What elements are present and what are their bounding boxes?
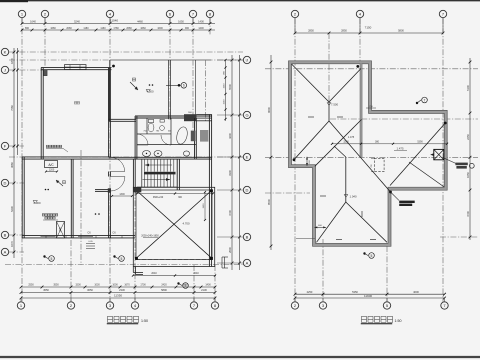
stair up arrow xyxy=(145,164,172,166)
sheet bottom border xyxy=(0,356,480,358)
svg-text:1400: 1400 xyxy=(198,27,204,30)
corner column xyxy=(44,70,48,76)
svg-text:K: K xyxy=(4,50,7,55)
svg-text:5500: 5500 xyxy=(228,84,232,90)
svg-text:1500: 1500 xyxy=(75,284,81,287)
interior vertical dim x222 small walls xyxy=(221,257,223,268)
svg-text:2850: 2850 xyxy=(341,29,347,33)
svg-text:2250: 2250 xyxy=(466,134,470,140)
lower hip left xyxy=(317,202,346,242)
svg-text:5890: 5890 xyxy=(161,288,167,292)
svg-text:2050+240+1850: 2050+240+1850 xyxy=(141,235,159,238)
terrace diagonal brace A xyxy=(137,191,212,259)
door arc corridor 1 xyxy=(110,157,124,171)
svg-text:1:50: 1:50 xyxy=(141,319,148,323)
level 6.300 label2 xyxy=(63,181,66,184)
leader circles bottom row xyxy=(43,255,45,257)
svg-text:5350: 5350 xyxy=(352,290,358,294)
A/C niche top xyxy=(45,161,58,168)
svg-text:1650: 1650 xyxy=(466,172,470,178)
svg-text:1400: 1400 xyxy=(198,20,204,24)
bath door arc xyxy=(137,134,148,145)
shower dark unit xyxy=(191,131,196,142)
balcony divider wall xyxy=(168,60,170,119)
hip line TL xyxy=(292,64,330,102)
note text 2 xyxy=(42,214,44,216)
svg-text:3650: 3650 xyxy=(87,288,93,292)
svg-text:1.475: 1.475 xyxy=(397,147,404,151)
svg-text:5: 5 xyxy=(51,257,53,261)
interior dim line right wing xyxy=(332,143,447,145)
landing wall y158 xyxy=(109,156,212,158)
right plan bottom circles xyxy=(291,302,298,309)
svg-text:1780: 1780 xyxy=(113,27,119,30)
svg-text:4600: 4600 xyxy=(413,290,419,294)
svg-text:1670: 1670 xyxy=(124,284,130,287)
right plan top dimension line xyxy=(295,32,443,34)
left axis circles xyxy=(1,48,8,55)
svg-text:860: 860 xyxy=(25,27,30,30)
note text left xyxy=(46,145,48,147)
svg-text:1650: 1650 xyxy=(224,83,226,89)
svg-text:9600: 9600 xyxy=(267,107,271,113)
right wing hip to corner D xyxy=(409,162,444,187)
stair edge bottom xyxy=(137,186,177,188)
svg-text:2040: 2040 xyxy=(151,272,157,275)
svg-text:1160: 1160 xyxy=(100,27,106,30)
leader lower wing xyxy=(363,252,365,254)
door arc corridor 2 xyxy=(110,177,125,192)
left exterior wall upper xyxy=(40,68,42,160)
lower wing ridge xyxy=(345,157,347,202)
far right exterior wall xyxy=(208,114,210,266)
svg-text:C6: C6 xyxy=(112,231,116,235)
svg-text:5240: 5240 xyxy=(74,20,80,24)
exterior step bottom-left of terrace xyxy=(132,267,134,273)
svg-text:4550: 4550 xyxy=(43,288,49,292)
svg-text:1650: 1650 xyxy=(178,20,184,24)
svg-text:380: 380 xyxy=(375,141,380,144)
interior dim small near step xyxy=(366,107,376,109)
stair right wall xyxy=(176,159,178,190)
svg-text:D: D xyxy=(246,188,249,193)
title left: san ceng ping mian tu xyxy=(108,316,113,322)
svg-text:7: 7 xyxy=(424,98,426,102)
valley B xyxy=(315,120,362,167)
skylight dashed rect xyxy=(374,158,384,171)
svg-text:2040: 2040 xyxy=(193,272,199,275)
svg-text:1560: 1560 xyxy=(224,99,226,105)
bottom axis circles left plan xyxy=(17,302,24,309)
svg-text:J: J xyxy=(246,58,248,63)
svg-text:6: 6 xyxy=(183,84,185,88)
svg-text:2600: 2600 xyxy=(228,247,232,253)
svg-text:4700: 4700 xyxy=(466,211,470,217)
svg-text:3600+240: 3600+240 xyxy=(153,197,164,199)
svg-text:A: A xyxy=(246,261,249,266)
svg-text:1600: 1600 xyxy=(157,27,163,30)
svg-text:3300: 3300 xyxy=(228,170,232,176)
long valley A xyxy=(329,121,391,192)
wash basin 1 xyxy=(143,151,151,157)
svg-text:1300: 1300 xyxy=(119,193,125,196)
axis grid: vertical centerlines left plan xyxy=(21,18,23,301)
svg-text:C6: C6 xyxy=(87,231,91,235)
sheet top border xyxy=(0,0,480,2)
toilet 1 xyxy=(148,123,154,132)
leader on top parapet xyxy=(416,102,418,104)
toilet 2 xyxy=(160,126,165,131)
stair handrail dark band xyxy=(144,172,176,175)
bottom exterior wall xyxy=(22,235,135,237)
svg-text:2420: 2420 xyxy=(161,284,167,287)
terrace diagonal brace B xyxy=(137,191,212,259)
left dimension column xyxy=(13,48,15,258)
svg-text:3550: 3550 xyxy=(53,284,59,287)
interior wall x72 xyxy=(70,159,72,238)
extension line bottom left xyxy=(296,238,315,240)
connector wall corridor-terrace xyxy=(132,159,134,187)
terrace square inner wall xyxy=(136,190,212,260)
right axis circles of left plan xyxy=(243,56,250,63)
bidet xyxy=(184,151,190,156)
room divider wall y190 xyxy=(95,189,110,191)
svg-text:2330: 2330 xyxy=(119,288,125,292)
inner gray wall line x361 xyxy=(360,64,362,157)
svg-text:2850: 2850 xyxy=(308,29,314,33)
step mini dimension vertical xyxy=(306,157,308,166)
right plan bottom dims xyxy=(295,293,445,295)
svg-text:2550: 2550 xyxy=(28,284,34,287)
top axis circles 1 2 4 6 7 8 xyxy=(18,10,25,17)
svg-text:J: J xyxy=(4,68,6,73)
terrace corner pads xyxy=(135,189,138,192)
svg-text:1660: 1660 xyxy=(140,27,146,30)
corridor wall x109 with door openings xyxy=(108,121,110,157)
svg-text:E: E xyxy=(246,155,249,160)
leader top right to circle 6 xyxy=(166,84,181,86)
axis grid: horizontal centerlines left plan xyxy=(9,51,243,53)
svg-text:900: 900 xyxy=(185,27,190,30)
step wall at y156 xyxy=(22,156,46,158)
svg-text:4700: 4700 xyxy=(228,210,232,216)
corner dot top right xyxy=(356,65,359,68)
svg-text:1030: 1030 xyxy=(94,284,100,287)
right heavy wall chunk xyxy=(184,114,197,121)
svg-text:7150: 7150 xyxy=(365,26,372,30)
stair treads xyxy=(141,159,143,187)
right plan top circles xyxy=(291,10,298,17)
note dark text mid-right xyxy=(399,201,415,203)
svg-text:7560: 7560 xyxy=(10,105,14,111)
bath block outline xyxy=(135,115,212,117)
wash basin 2 xyxy=(154,151,162,157)
svg-text:B: B xyxy=(246,235,249,240)
terrace square outer wall xyxy=(133,187,214,266)
interior vertical dim x205 xyxy=(204,192,206,220)
svg-text:1.475: 1.475 xyxy=(348,136,355,139)
svg-text:2130: 2130 xyxy=(201,288,207,292)
svg-text:1870: 1870 xyxy=(10,58,14,64)
svg-text:1400: 1400 xyxy=(205,284,211,287)
svg-text:G: G xyxy=(245,113,248,118)
svg-text:5: 5 xyxy=(185,284,187,288)
svg-text:5390: 5390 xyxy=(417,141,423,144)
right plan right dim column xyxy=(469,58,471,240)
svg-text:1680: 1680 xyxy=(50,27,56,30)
svg-text:D: D xyxy=(4,181,7,186)
svg-text:1.040: 1.040 xyxy=(350,195,357,199)
top exterior wall with bay window xyxy=(41,67,112,69)
svg-text:5800: 5800 xyxy=(398,29,404,33)
down-arrow symbol big room right xyxy=(130,82,138,90)
right plan axis centerlines xyxy=(265,68,478,70)
svg-text:5: 5 xyxy=(371,254,373,258)
right wing diagonal C xyxy=(390,123,445,186)
svg-text:4460: 4460 xyxy=(137,20,143,24)
svg-text:1200: 1200 xyxy=(49,168,55,171)
svg-text:11900: 11900 xyxy=(364,294,372,298)
inner dim chain x225 xyxy=(225,60,227,121)
svg-text:4.700: 4.700 xyxy=(183,222,190,226)
svg-text:A/C: A/C xyxy=(48,163,54,167)
dim line inside square top xyxy=(137,193,213,195)
svg-text:1640: 1640 xyxy=(30,20,36,24)
svg-text:1000: 1000 xyxy=(112,284,118,287)
svg-text:7.500: 7.500 xyxy=(331,103,338,107)
right plan left dim column xyxy=(270,55,272,250)
closet dark unit xyxy=(200,130,208,142)
svg-text:8500: 8500 xyxy=(267,199,271,205)
balcony outline top right xyxy=(110,59,211,61)
svg-text:1:50: 1:50 xyxy=(395,319,402,323)
svg-text:11350: 11350 xyxy=(114,294,122,298)
svg-text:B: B xyxy=(4,233,7,238)
bath door arc 2 xyxy=(161,135,171,145)
svg-text:2080: 2080 xyxy=(66,27,72,30)
svg-text:1900: 1900 xyxy=(203,203,205,209)
chimney with X xyxy=(434,149,444,159)
svg-text:A: A xyxy=(4,250,7,255)
step mini dimension horizontal xyxy=(315,226,327,228)
svg-text:2680: 2680 xyxy=(126,27,132,30)
hip line BL with corner dot xyxy=(294,121,329,160)
window in bottom wall 2 xyxy=(78,236,93,238)
valley to ridge top xyxy=(334,146,346,157)
svg-text:2250: 2250 xyxy=(307,290,313,294)
corridor width dim xyxy=(112,195,132,197)
chimney leader note xyxy=(444,158,456,164)
lower hip right xyxy=(346,202,387,242)
right dimension column of left plan xyxy=(231,55,233,270)
bay window W1 xyxy=(65,65,87,70)
svg-text:11040: 11040 xyxy=(110,19,118,23)
bath tub oval xyxy=(175,126,189,145)
title right: wu ding ping mian tu xyxy=(362,316,367,322)
window in bottom wall 1 xyxy=(41,236,56,238)
top dimension lines left plan xyxy=(21,23,215,25)
svg-text:5230: 5230 xyxy=(10,206,14,212)
svg-text:A/C: A/C xyxy=(58,227,62,231)
dim below terrace xyxy=(133,275,216,277)
interior room divider y157 xyxy=(46,156,110,158)
small dots in hallway xyxy=(95,213,97,215)
roof outline parapet xyxy=(290,62,446,245)
slope dashes xyxy=(308,116,314,118)
terrace top wall dark segment xyxy=(133,187,141,192)
svg-text:1700: 1700 xyxy=(140,284,146,287)
A/C closet bottom (vertical) xyxy=(57,222,65,238)
svg-text:1180: 1180 xyxy=(83,27,89,30)
left exterior wall lower xyxy=(21,157,23,238)
big room right wall (dark) xyxy=(108,68,111,121)
room label master xyxy=(74,102,76,104)
hip ridge top-left roof xyxy=(328,102,330,121)
step detail at bottom wall xyxy=(86,243,95,245)
bath divider walls xyxy=(146,118,148,134)
svg-text:3200: 3200 xyxy=(343,141,349,144)
balcony dot node xyxy=(112,65,115,68)
hip line TR xyxy=(329,69,361,103)
svg-text:1670: 1670 xyxy=(10,241,14,247)
svg-text:3660: 3660 xyxy=(10,162,14,168)
svg-text:5100: 5100 xyxy=(466,85,470,91)
bottom dimension lines left plan xyxy=(21,286,215,288)
svg-text:4200: 4200 xyxy=(228,133,232,139)
svg-text:5: 5 xyxy=(121,257,123,261)
